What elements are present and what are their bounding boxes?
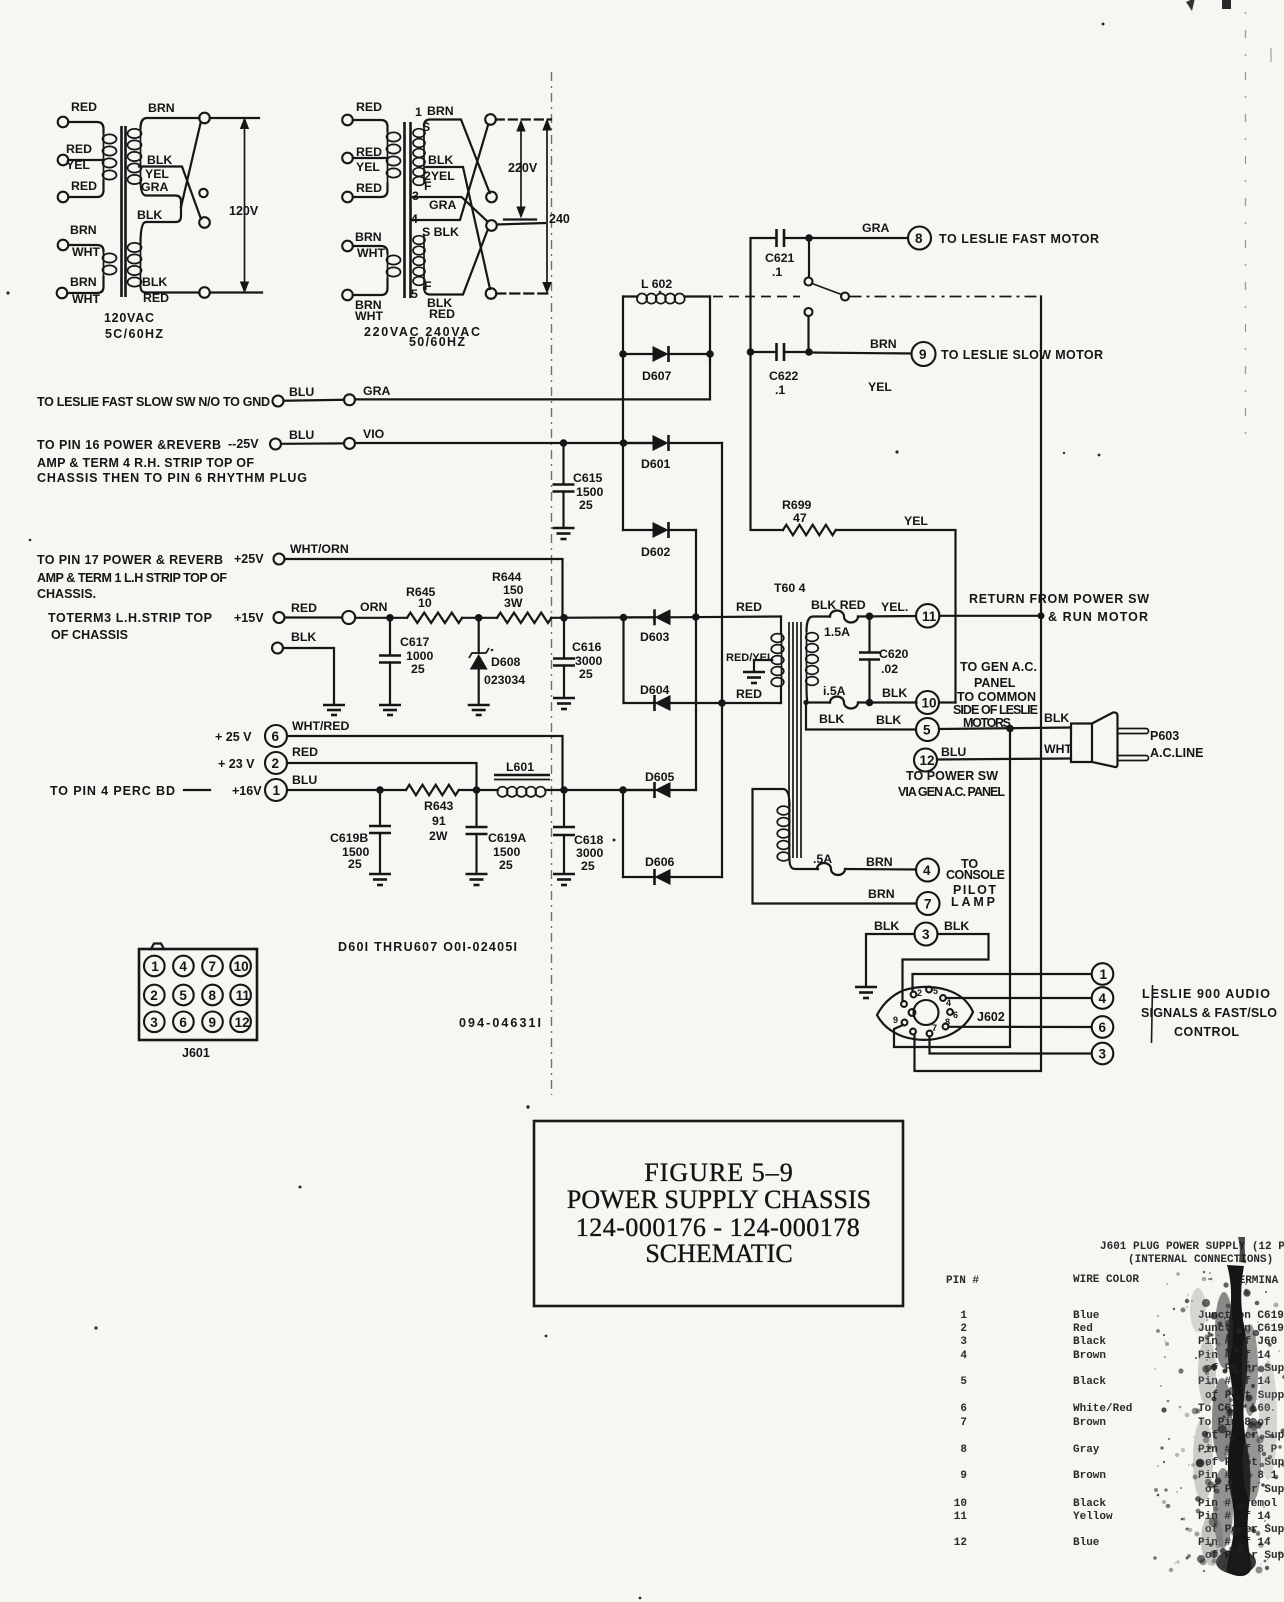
label RED	[356, 181, 382, 195]
terminal 11	[916, 604, 939, 627]
svg-text:6: 6	[960, 1403, 967, 1415]
svg-text:RED: RED	[71, 179, 97, 193]
wire	[462, 617, 497, 619]
junction L601 left	[473, 786, 481, 794]
secondary winding upper (T1)	[128, 128, 142, 184]
J602 pin 3	[926, 986, 938, 996]
svg-text:47: 47	[793, 511, 807, 525]
wire D602 riser down (pos rail)	[695, 530, 697, 790]
label BLK RED (sec top)	[811, 598, 866, 612]
svg-text:YEL: YEL	[868, 380, 892, 394]
svg-text:ORN: ORN	[360, 600, 387, 614]
svg-text:3: 3	[960, 1336, 967, 1348]
pin label 1 / BRN / S	[415, 104, 454, 134]
svg-text:R643: R643	[424, 799, 454, 813]
svg-text:WHT: WHT	[357, 246, 385, 260]
terminal (primary BRN/WHT upper)	[342, 241, 353, 252]
junction D607/D601 riser	[620, 439, 628, 447]
terminal 8	[908, 227, 931, 250]
terminal sec 3	[199, 217, 210, 228]
ground (D608)	[468, 705, 490, 715]
ground (C618)	[553, 874, 575, 885]
ground (C617)	[379, 705, 401, 715]
svg-text:11: 11	[954, 1511, 968, 1523]
svg-text:LAMP: LAMP	[951, 895, 995, 909]
capacitor C615	[553, 443, 604, 527]
svg-text:RED/YEL: RED/YEL	[726, 652, 774, 664]
svg-text:12: 12	[235, 1015, 250, 1030]
terminal D (bottom)	[486, 288, 497, 299]
svg-text:C622: C622	[769, 369, 799, 383]
junction C616 / +25V feed	[560, 614, 568, 622]
junction D607 left	[619, 350, 627, 358]
label TO LESLIE FAST SLOW SW N/O TO GND	[37, 395, 270, 409]
label BRN (circle 7)	[868, 887, 895, 901]
svg-text:BRN: BRN	[427, 104, 454, 118]
label BLK (sec lower)	[137, 208, 162, 222]
ground (BLK stub)	[323, 705, 345, 715]
svg-text:BLU: BLU	[941, 745, 966, 759]
svg-text:CONSOLE: CONSOLE	[946, 868, 1005, 882]
svg-text:BRN: BRN	[70, 275, 97, 289]
svg-text:VIO: VIO	[363, 427, 385, 441]
terminal 4	[916, 859, 939, 882]
svg-text:7: 7	[924, 897, 932, 912]
svg-text:9: 9	[209, 1015, 217, 1030]
wire circle 12 to plug WHT	[937, 759, 1071, 760]
terminal 5	[916, 718, 939, 741]
J602 pin 4	[940, 995, 951, 1008]
capacitor C621	[765, 229, 809, 279]
svg-text:8: 8	[915, 231, 923, 246]
secondary winding lower T604 (.5A pilot)	[777, 805, 790, 861]
tap4 wire to terminal A	[413, 124, 488, 220]
junction D603 left	[620, 614, 628, 622]
svg-text:5C/60HZ: 5C/60HZ	[105, 327, 163, 341]
svg-text:+ 25 V: + 25 V	[215, 730, 252, 744]
label BLK (circle 10)	[882, 686, 907, 700]
terminal 2	[265, 752, 287, 774]
svg-text:8: 8	[960, 1444, 967, 1456]
diode D604	[624, 683, 782, 711]
svg-text:S BLK: S BLK	[422, 225, 459, 239]
svg-text:4: 4	[946, 998, 951, 1008]
wire	[284, 399, 345, 402]
wire return net drop to J602 pin 8	[915, 616, 1042, 1071]
label RED	[356, 100, 382, 114]
junction D608	[475, 614, 483, 622]
diode D602	[623, 522, 696, 559]
label BLK BLK (circle 3)	[874, 919, 969, 933]
label 2YEL / F	[424, 169, 455, 193]
label VIO	[363, 427, 385, 441]
terminal C	[486, 220, 497, 231]
svg-text:+15V: +15V	[234, 611, 264, 625]
svg-text:SIGNALS & FAST/SLO: SIGNALS & FAST/SLO	[1141, 1006, 1277, 1020]
terminal (primary RED bottom)	[342, 192, 353, 203]
J602 pin 8	[910, 1029, 916, 1035]
svg-text:3000: 3000	[576, 846, 604, 860]
label +15V	[234, 611, 264, 625]
svg-text:4: 4	[1099, 991, 1107, 1006]
label 4	[411, 212, 418, 226]
svg-text:TO PIN 16 POWER &REVERB: TO PIN 16 POWER &REVERB	[37, 438, 221, 452]
wire L602 right riser	[709, 297, 711, 361]
label 120VAC 50/60HZ	[104, 311, 163, 341]
svg-text:3W: 3W	[504, 596, 523, 610]
plug P603	[1071, 712, 1149, 767]
label TO GEN A.C. PANEL	[960, 660, 1037, 690]
label YEL	[904, 514, 928, 528]
label BLK (plug)	[1044, 711, 1069, 725]
svg-text:9: 9	[893, 1015, 898, 1025]
wire L601 to D605	[545, 789, 653, 791]
label BLK (sec)	[147, 153, 172, 167]
J601 pin 7	[202, 956, 223, 977]
label RED/YEL (center tap)	[726, 652, 774, 664]
label WHT/RED	[292, 719, 349, 733]
svg-text:7: 7	[960, 1417, 967, 1429]
label TO POWER SW VIA GEN A.C. PANEL	[898, 769, 1005, 799]
svg-text:C615: C615	[573, 471, 603, 485]
ground (C619B)	[369, 874, 391, 885]
svg-text:D608: D608	[491, 655, 521, 669]
svg-text:RED: RED	[292, 745, 318, 759]
svg-text:BLK: BLK	[147, 153, 172, 167]
svg-text:5: 5	[923, 723, 931, 738]
label TO COMMON SIDE OF LESLIE MOTORS	[953, 690, 1038, 730]
svg-text:BLU: BLU	[289, 385, 314, 399]
svg-text:White/Red: White/Red	[1073, 1403, 1132, 1415]
svg-text:CHASSIS.: CHASSIS.	[37, 587, 96, 601]
wire	[353, 246, 388, 253]
wire BLK stub to ground	[283, 648, 334, 704]
label TOTERM3 L.H.STRIP TOP OF CHASSIS	[48, 611, 212, 642]
svg-text:BLK: BLK	[142, 275, 167, 289]
svg-text:BLK: BLK	[876, 713, 901, 727]
wire terminal A to 240 line (dash)	[496, 118, 551, 120]
svg-text:F: F	[424, 179, 432, 193]
resistor R645	[406, 585, 462, 623]
svg-text:RED: RED	[66, 142, 92, 156]
junction C620 bottom	[866, 699, 874, 707]
ink smudge streak over table	[1190, 1237, 1277, 1576]
J602 pin 5	[947, 1009, 958, 1020]
wire to 120V dimension bottom	[210, 291, 262, 293]
fuse .5A + wire to circle 4	[790, 852, 917, 875]
svg-text:WIRE COLOR: WIRE COLOR	[1073, 1274, 1139, 1286]
label +25V	[234, 552, 264, 566]
svg-text:2: 2	[917, 988, 922, 998]
resistor R643	[406, 785, 459, 843]
capacitor C619B	[330, 790, 391, 873]
wire leslie-6 to J602 pin 6	[949, 1026, 1092, 1028]
wire	[353, 120, 388, 131]
svg-text:CONTROL: CONTROL	[1174, 1025, 1239, 1039]
junction C619B	[376, 786, 384, 794]
svg-text:D607: D607	[642, 369, 672, 383]
capacitor C619A	[466, 790, 527, 873]
label RED	[71, 179, 97, 193]
svg-text:Yellow: Yellow	[1073, 1511, 1113, 1523]
core T2	[405, 122, 411, 298]
junction D603 right / pos rail	[692, 613, 700, 621]
wire	[281, 442, 344, 445]
svg-text:3000: 3000	[575, 654, 603, 668]
fuse 1.5A (bottom) + sec bottom tap	[807, 684, 917, 709]
svg-text:D60I THRU607 O0I-02405I: D60I THRU607 O0I-02405I	[338, 940, 517, 954]
svg-text:BLK: BLK	[874, 919, 899, 933]
terminal BLK stub	[272, 643, 283, 654]
junction D607 right	[706, 350, 714, 358]
wire	[353, 279, 388, 295]
terminal 7	[917, 892, 940, 915]
svg-text:& RUN MOTOR: & RUN MOTOR	[1048, 610, 1148, 624]
dimension 120V	[229, 117, 259, 294]
svg-text:023034: 023034	[484, 673, 525, 687]
svg-text:L 602: L 602	[641, 277, 672, 291]
label TO CONSOLE PILOT LAMP	[946, 857, 1005, 909]
label F / 5	[411, 279, 432, 301]
svg-text:+16V: +16V	[232, 784, 262, 798]
terminal sec 2 (small idle)	[199, 189, 207, 197]
wire return riser (to circle 11 row)	[1040, 297, 1042, 617]
J601 pin 4	[173, 956, 194, 977]
wire L602 left riser	[622, 297, 624, 444]
svg-text:120VAC: 120VAC	[104, 311, 154, 325]
svg-text:10: 10	[418, 596, 432, 610]
junction J602 drop (BLK)	[1006, 725, 1014, 733]
svg-text:Brown: Brown	[1073, 1350, 1106, 1362]
svg-text:RED: RED	[291, 601, 317, 615]
label TO PIN 4 PERC BD	[50, 784, 210, 798]
label WHT (plug)	[1044, 742, 1072, 756]
fold line (page crease)	[551, 72, 553, 1095]
svg-text:Blue: Blue	[1073, 1310, 1100, 1322]
svg-text:.02: .02	[881, 662, 898, 676]
svg-text:4: 4	[179, 959, 187, 974]
wire	[68, 122, 103, 133]
label YEL	[868, 380, 892, 394]
tap2 wire (BLK) to terminal D	[426, 167, 490, 289]
svg-text:10: 10	[922, 696, 937, 711]
svg-text:R644: R644	[492, 570, 522, 584]
svg-text:25: 25	[579, 667, 593, 681]
svg-text:BLK: BLK	[819, 712, 844, 726]
svg-text:C616: C616	[572, 640, 602, 654]
svg-text:TO PIN 17 POWER & REVERB: TO PIN 17 POWER & REVERB	[37, 553, 223, 567]
terminal A (top)	[485, 114, 496, 125]
svg-text:2: 2	[960, 1323, 967, 1335]
svg-text:T60 4: T60 4	[774, 581, 806, 595]
terminal (leslie) 1	[1092, 963, 1114, 985]
junction C615	[560, 439, 568, 447]
wire +16V row to R643	[287, 789, 406, 791]
ground (circle 3)	[855, 987, 877, 998]
wire	[67, 277, 103, 293]
svg-text:1: 1	[151, 959, 159, 974]
resistor R644	[492, 570, 551, 623]
svg-text:TO PIN 4 PERC BD: TO PIN 4 PERC BD	[50, 784, 175, 798]
junction C617	[386, 614, 394, 622]
svg-text:3: 3	[1099, 1047, 1107, 1062]
terminal B	[486, 192, 497, 203]
label RETURN FROM POWER SW & RUN MOTOR	[969, 592, 1149, 624]
svg-text:C621: C621	[765, 251, 795, 265]
terminal 9	[912, 342, 936, 366]
svg-text:BLU: BLU	[292, 773, 317, 787]
svg-text:YEL.: YEL.	[881, 600, 908, 614]
junction return corner	[1038, 612, 1045, 619]
wire BLK lower tap	[141, 207, 182, 243]
wire terminal D to 240 line (dash)	[496, 292, 551, 294]
terminal (primary, RED/YEL)	[58, 155, 69, 166]
label BLK/RED bottom	[427, 296, 455, 321]
svg-text:+25V: +25V	[234, 552, 264, 566]
label BLK tap2	[428, 153, 453, 167]
wire bottom tap	[141, 287, 200, 293]
label BLK (circle 5)	[876, 713, 901, 727]
label BLU	[289, 385, 314, 399]
svg-text:A.C.LINE: A.C.LINE	[1150, 746, 1203, 760]
ground (C615)	[553, 528, 575, 539]
svg-text:D604: D604	[640, 683, 670, 697]
terminal ORN (+15V row)	[342, 611, 355, 624]
terminal (primary, BRN/WHT lower)	[57, 288, 68, 299]
wire D606 riser	[622, 790, 624, 877]
diode D605	[626, 770, 696, 798]
svg-text:GRA: GRA	[429, 198, 456, 212]
svg-text:.5A: .5A	[813, 852, 832, 866]
label 3 / GRA	[412, 189, 456, 212]
svg-text:2: 2	[272, 756, 280, 771]
label TO LESLIE FAST MOTOR	[939, 232, 1099, 246]
svg-text:D606: D606	[645, 855, 675, 869]
svg-text:GRA: GRA	[141, 180, 168, 194]
svg-text:SCHEMATIC: SCHEMATIC	[645, 1239, 792, 1268]
svg-text:+ 23 V: + 23 V	[218, 757, 255, 771]
dimension 220V	[504, 120, 538, 220]
label BRN/WHT	[355, 230, 385, 260]
terminal BLU (-25V row)	[270, 439, 281, 450]
svg-text:25: 25	[348, 857, 362, 871]
label YEL	[881, 600, 908, 614]
wire leslie-1 to J602 pin 2	[913, 974, 1092, 992]
svg-text:220V: 220V	[508, 161, 538, 175]
label 220VAC 240VAC 50/60HZ	[364, 325, 480, 349]
svg-text:BRN: BRN	[866, 855, 893, 869]
svg-text:6: 6	[953, 1010, 958, 1020]
label +16V circle 1	[232, 784, 262, 798]
svg-text:1: 1	[415, 105, 422, 119]
terminal (primary, RED top)	[58, 117, 69, 128]
svg-text:Black: Black	[1073, 1498, 1106, 1510]
wire circle 5 to plug BLK	[939, 728, 1071, 730]
wire D603/D604 riser	[622, 618, 624, 704]
core T1	[122, 126, 126, 297]
pen artifact stroke	[1152, 985, 1153, 1043]
svg-text:Gray: Gray	[1073, 1444, 1100, 1456]
tap5 wire to terminal C	[424, 230, 488, 295]
terminal (leslie) 6	[1092, 1016, 1114, 1038]
svg-text:25: 25	[579, 498, 593, 512]
tap3 wire (GRA) to terminal C	[413, 197, 488, 222]
svg-text:10: 10	[954, 1498, 967, 1510]
svg-text:--25V: --25V	[228, 437, 259, 451]
svg-text:BRN: BRN	[868, 887, 895, 901]
label WHT/ORN	[290, 542, 349, 556]
J601 pin 12	[230, 1012, 251, 1033]
wire terminal C right	[497, 223, 545, 225]
svg-text:L601: L601	[506, 760, 534, 774]
svg-text:8: 8	[209, 988, 217, 1003]
svg-text:9: 9	[919, 347, 927, 362]
label GRA	[141, 180, 168, 194]
junction D606 riser	[619, 786, 627, 794]
wire to circle 8	[809, 237, 908, 239]
terminal WHT/ORN (+25V row)	[274, 554, 285, 565]
zener D608	[469, 618, 525, 704]
label RED	[71, 100, 97, 114]
svg-text:YEL: YEL	[356, 160, 380, 174]
tap1 wire to terminal B	[424, 120, 490, 194]
label BRN/WHT	[70, 275, 100, 306]
svg-text:BLU: BLU	[289, 428, 314, 442]
capacitor C620	[859, 616, 909, 702]
label TO PIN 17 POWER & REVERB ...	[37, 553, 227, 601]
wire	[353, 157, 388, 159]
terminal 1	[265, 779, 287, 801]
capacitor C618	[553, 790, 604, 873]
svg-text:11: 11	[922, 609, 937, 624]
wire BRN tap to terminal	[141, 118, 200, 128]
svg-text:4: 4	[960, 1350, 967, 1362]
table terminal column (smudged text)	[1198, 1310, 1284, 1562]
terminal 6	[265, 725, 287, 747]
inductor L602	[623, 277, 710, 304]
J601 pin 1	[144, 956, 165, 977]
J602 pin 2	[911, 988, 922, 998]
wire circle 10 right to riser	[939, 701, 956, 703]
capacitor C616	[553, 618, 603, 697]
wire center tap to ground	[754, 660, 772, 671]
svg-text:6: 6	[179, 1015, 187, 1030]
svg-text:.1: .1	[772, 265, 782, 279]
label -25V	[228, 437, 259, 451]
svg-text:AMP & TERM 1 L.H STRIP TOP OF: AMP & TERM 1 L.H STRIP TOP OF	[37, 571, 227, 585]
svg-text:i.5A: i.5A	[823, 684, 846, 698]
J602 pin 1	[901, 1001, 907, 1007]
wire -25V to D602 riser	[622, 443, 624, 530]
svg-text:(INTERNAL CONNECTIONS): (INTERNAL CONNECTIONS)	[1128, 1254, 1273, 1266]
svg-text:BLK: BLK	[291, 630, 316, 644]
junction C620 top	[866, 613, 874, 621]
svg-text:Brown: Brown	[1073, 1470, 1106, 1482]
secondary winding upper T604	[806, 631, 819, 685]
wire leslie-3 to J602 pin 7	[930, 1037, 1092, 1054]
svg-text:BLK: BLK	[1044, 711, 1069, 725]
svg-text:PIN #: PIN #	[946, 1275, 979, 1287]
junction L601 right / C618	[560, 786, 568, 794]
J602 center hole with key	[909, 1000, 939, 1025]
label RED (primary top)	[736, 600, 762, 614]
terminal sec 1 (top right)	[199, 113, 210, 124]
svg-text:J601: J601	[182, 1046, 210, 1060]
svg-text:WHT: WHT	[355, 309, 383, 323]
svg-text:BLK: BLK	[882, 686, 907, 700]
primary winding lower (T2)	[387, 253, 401, 279]
secondary winding lower (T2)	[413, 234, 425, 288]
